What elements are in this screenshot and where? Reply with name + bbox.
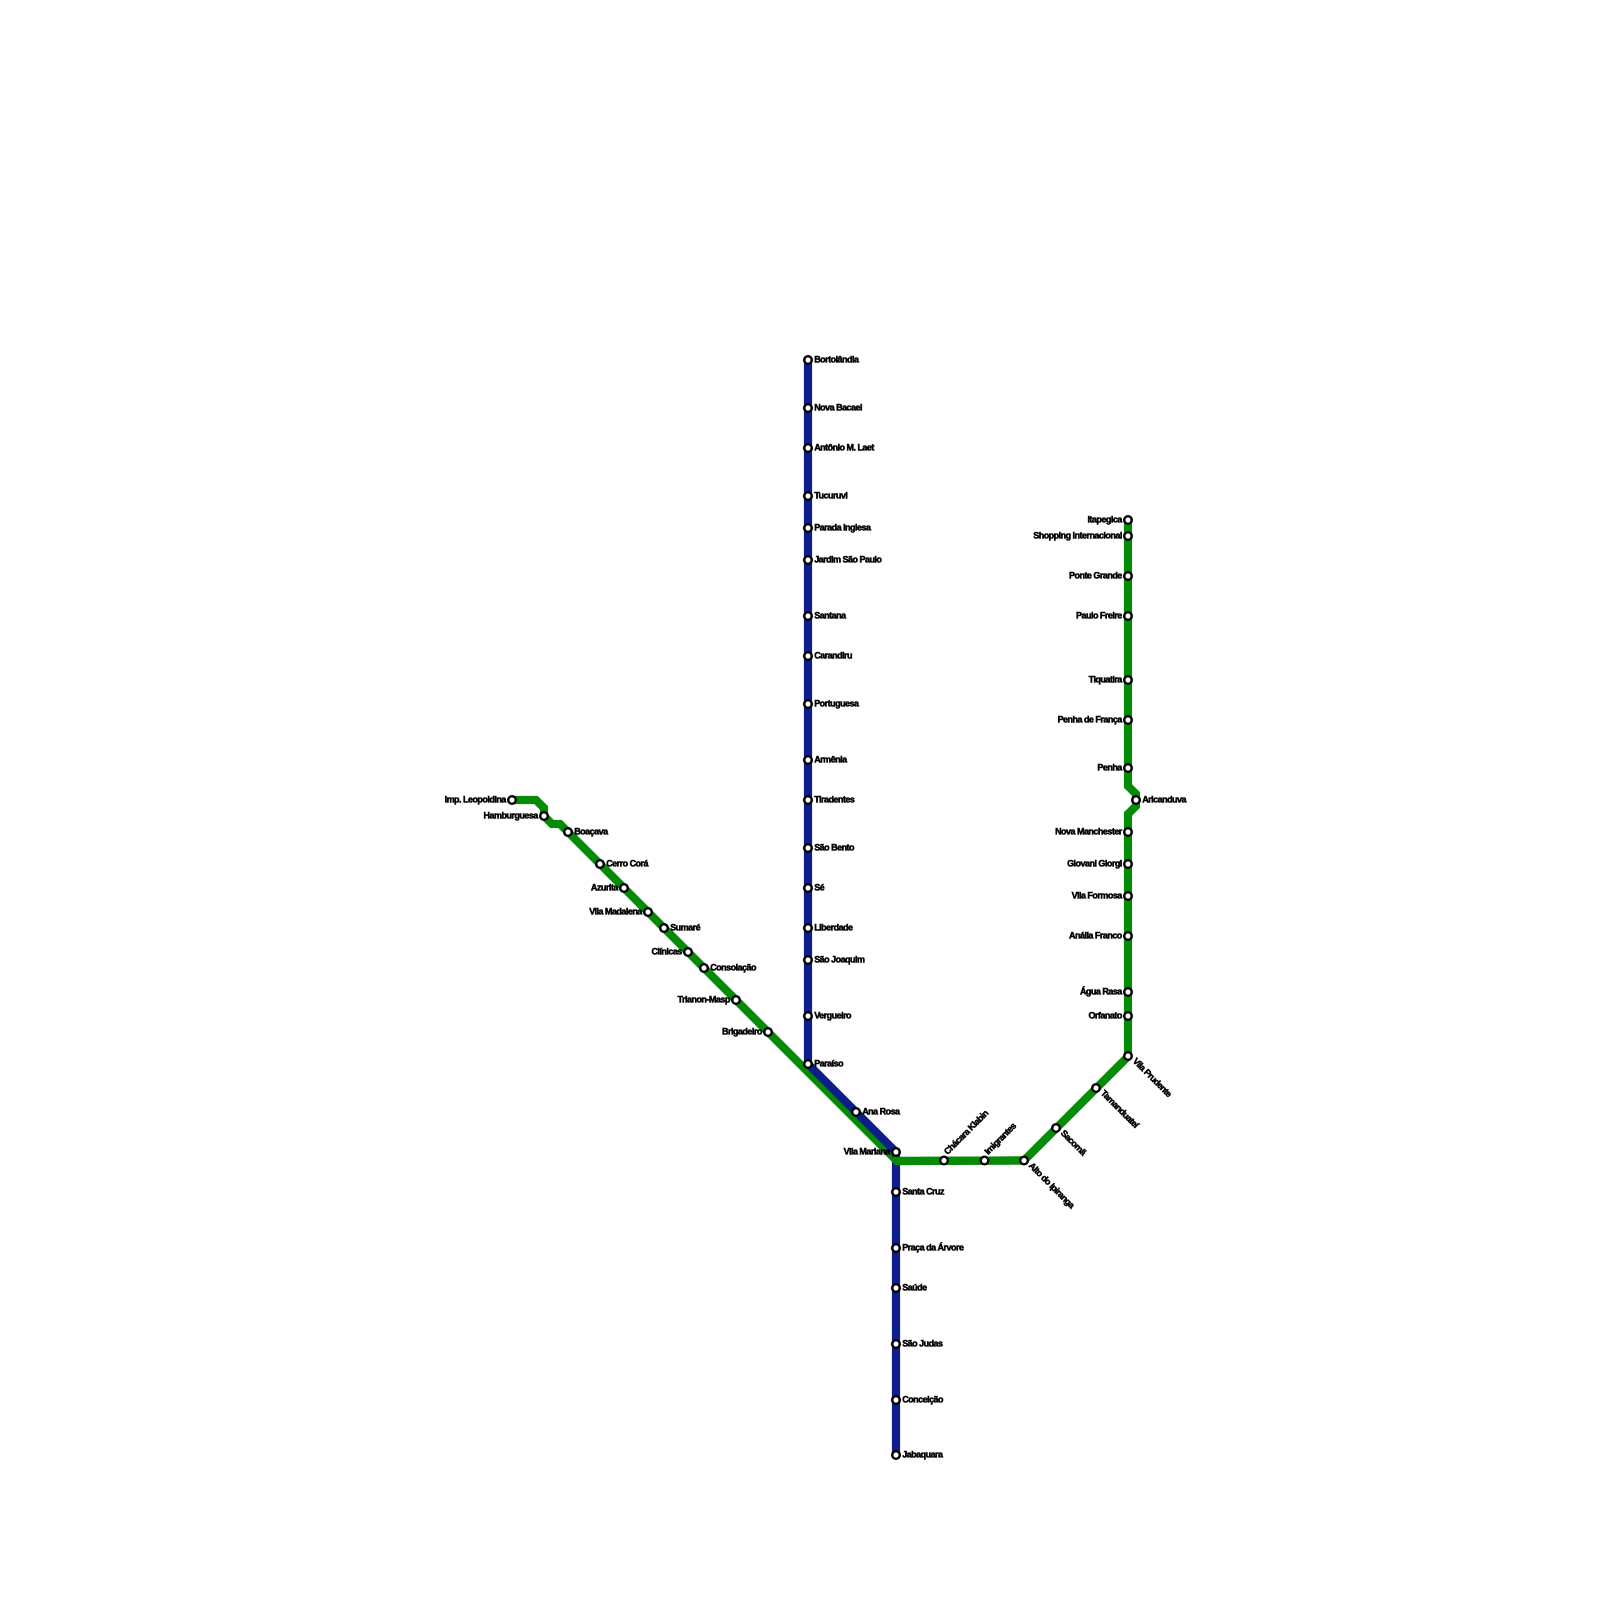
node Armênia station dot (804, 756, 812, 764)
node Ana Rosa station dot (852, 1108, 860, 1116)
svg-text:Consolação: Consolação (710, 962, 757, 972)
node Vila Formosa station dot (1124, 892, 1132, 900)
node Paraíso station dot (804, 1060, 812, 1068)
svg-text:Cerro Corá: Cerro Corá (606, 858, 649, 868)
svg-text:Anália Franco: Anália Franco (1069, 930, 1123, 940)
node Tiradentes station dot (804, 796, 812, 804)
node Tucuruvi station dot (804, 492, 812, 500)
svg-text:Vila Madalena: Vila Madalena (589, 906, 643, 916)
node Santana station dot (804, 612, 812, 620)
svg-text:Giovani Giorgi: Giovani Giorgi (1067, 858, 1122, 868)
node Azurita station dot (620, 884, 628, 892)
svg-text:São Bento: São Bento (814, 842, 855, 852)
node Jabaquara station dot (892, 1451, 900, 1459)
node Bortolândia station dot (804, 356, 812, 364)
node Nova Bacael station dot (804, 404, 812, 412)
svg-text:Conceição: Conceição (902, 1394, 944, 1404)
wire: Line 1 blue main path (808, 360, 896, 1455)
svg-text:Shopping Internacional: Shopping Internacional (1033, 530, 1122, 540)
node Alto do Ipiranga station dot (1020, 1157, 1028, 1165)
node Saúde station dot (892, 1284, 900, 1292)
svg-text:Jabaquara: Jabaquara (902, 1449, 944, 1459)
svg-text:Santa Cruz: Santa Cruz (902, 1186, 945, 1196)
node Giovani Giorgi station dot (1124, 860, 1132, 868)
node Itapegica station dot (1124, 516, 1132, 524)
svg-text:Tiradentes: Tiradentes (814, 794, 855, 804)
node São Bento station dot (804, 844, 812, 852)
svg-text:Jardim São Paulo: Jardim São Paulo (814, 554, 882, 564)
wire: Line 2 green main path (512, 520, 1136, 1161)
node Antônio M. Laet station dot (804, 444, 812, 452)
node Vergueiro station dot (804, 1012, 812, 1020)
node Jardim São Paulo station dot (804, 556, 812, 564)
node Imp. Leopoldina station dot (508, 796, 516, 804)
node Trianon-Masp station dot (732, 996, 740, 1004)
node Vila Prudente station dot (1124, 1052, 1132, 1060)
svg-text:Ana Rosa: Ana Rosa (862, 1106, 901, 1116)
node Sé station dot (804, 884, 812, 892)
node Sacomã station dot (1052, 1124, 1060, 1132)
node Cerro Corá station dot (596, 860, 604, 868)
node Clínicas station dot (684, 948, 692, 956)
svg-text:Vila Formosa: Vila Formosa (1072, 890, 1124, 900)
node Paulo Freire station dot (1124, 612, 1132, 620)
node São Judas station dot (892, 1340, 900, 1348)
node Orfanato station dot (1124, 1012, 1132, 1020)
svg-text:Itapegica: Itapegica (1087, 514, 1123, 524)
node Penha station dot (1124, 764, 1132, 772)
node Tamanduateí station dot (1092, 1084, 1100, 1092)
node Hamburguesa station dot (540, 812, 548, 820)
svg-text:Liberdade: Liberdade (814, 922, 853, 932)
node Parada Inglesa station dot (804, 524, 812, 532)
svg-text:Bortolândia: Bortolândia (814, 354, 860, 364)
svg-text:Praça da Árvore: Praça da Árvore (902, 1242, 964, 1252)
node Portuguesa station dot (804, 700, 812, 708)
svg-text:Sumaré: Sumaré (670, 922, 700, 932)
node Tiquatira station dot (1124, 676, 1132, 684)
svg-text:Trianon-Masp: Trianon-Masp (678, 994, 731, 1004)
node Imigrantes station dot (981, 1157, 989, 1165)
svg-text:Clínicas: Clínicas (651, 946, 682, 956)
svg-text:Vergueiro: Vergueiro (814, 1010, 852, 1020)
node Ponte Grande station dot (1124, 572, 1132, 580)
node Chácara Klabin station dot (940, 1157, 948, 1165)
svg-text:Imp. Leopoldina: Imp. Leopoldina (445, 794, 508, 804)
svg-text:Paraíso: Paraíso (814, 1058, 844, 1068)
node Santa Cruz station dot (892, 1188, 900, 1196)
node Aricanduva station dot (1132, 796, 1140, 804)
svg-text:Armênia: Armênia (814, 754, 848, 764)
node Consolação station dot (700, 964, 708, 972)
svg-text:Saúde: Saúde (902, 1282, 927, 1292)
node Liberdade station dot (804, 924, 812, 932)
svg-text:Portuguesa: Portuguesa (814, 698, 860, 708)
node Vila Madalena station dot (644, 908, 652, 916)
node Carandiru station dot (804, 652, 812, 660)
node Conceição station dot (892, 1396, 900, 1404)
node Boaçava station dot (564, 828, 572, 836)
svg-text:Carandiru: Carandiru (814, 650, 852, 660)
svg-text:Santana: Santana (814, 610, 847, 620)
node São Joaquim station dot (804, 956, 812, 964)
svg-text:São Joaquim: São Joaquim (814, 954, 865, 964)
svg-text:Sé: Sé (814, 882, 824, 892)
svg-text:Penha de França: Penha de França (1058, 714, 1124, 724)
svg-text:Boaçava: Boaçava (574, 826, 609, 836)
svg-text:Paulo Freire: Paulo Freire (1076, 610, 1122, 620)
svg-text:Antônio M. Laet: Antônio M. Laet (814, 442, 874, 452)
node Nova Manchester station dot (1124, 828, 1132, 836)
node Vila Mariana station dot (892, 1148, 900, 1156)
node Sumaré station dot (660, 924, 668, 932)
svg-text:São Judas: São Judas (902, 1338, 943, 1348)
svg-text:Orfanato: Orfanato (1088, 1010, 1122, 1020)
svg-text:Tucuruvi: Tucuruvi (814, 490, 847, 500)
svg-text:Nova Bacael: Nova Bacael (814, 402, 862, 412)
svg-text:Parada Inglesa: Parada Inglesa (814, 522, 872, 532)
svg-text:Ponte Grande: Ponte Grande (1069, 570, 1122, 580)
node Anália Franco station dot (1124, 932, 1132, 940)
svg-text:Penha: Penha (1097, 762, 1123, 772)
node Água Rasa station dot (1124, 988, 1132, 996)
svg-text:Vila Mariana: Vila Mariana (844, 1146, 892, 1156)
svg-text:Nova Manchester: Nova Manchester (1055, 826, 1123, 836)
node Praça da Árvore station dot (892, 1244, 900, 1252)
svg-text:Hamburguesa: Hamburguesa (484, 810, 540, 820)
svg-text:Brigadeiro: Brigadeiro (722, 1026, 763, 1036)
svg-text:Água Rasa: Água Rasa (1080, 986, 1123, 996)
svg-text:Aricanduva: Aricanduva (1142, 794, 1187, 804)
node Penha de França station dot (1124, 716, 1132, 724)
wire: Line 2 green horizontal overdraw (893, 1157, 1024, 1161)
svg-text:Azurita: Azurita (591, 882, 619, 892)
node Shopping Internacional station dot (1124, 532, 1132, 540)
node Brigadeiro station dot (764, 1028, 772, 1036)
svg-text:Tiquatira: Tiquatira (1089, 674, 1124, 684)
